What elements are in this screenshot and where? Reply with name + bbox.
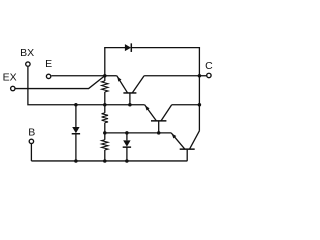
transistor Q2 middle NPN (emitter to rail L2, base rail L3) xyxy=(145,105,172,133)
node junction D3 cathode on bottom rail xyxy=(125,159,128,163)
terminal C (collector) xyxy=(205,60,213,78)
wire: ladder segment R2 bottom to L3 junction xyxy=(104,123,106,133)
wire: Q1 collector wire to C rail xyxy=(144,75,199,77)
wire: Q1 emitter stub on level L1 xyxy=(105,75,117,77)
diode D3 speed-up diode (Q2 base rail to B rail) xyxy=(123,133,131,161)
node junction D2 anode on Q1 base rail xyxy=(74,103,78,107)
node junction D2 cathode on bottom rail xyxy=(74,159,78,163)
transistor Q3 input NPN (emitter to rail L3, base bottom rail) xyxy=(171,131,199,161)
node junction D3 anode on Q2 base rail xyxy=(125,131,128,135)
wire: B terminal drop to bottom rail xyxy=(30,144,32,161)
node junction R2/R3 on Q2 base rail xyxy=(103,131,107,135)
resistor R2 (Q2 base-emitter) xyxy=(102,113,108,123)
wire: ladder segment R1 bottom to L2 junction xyxy=(104,92,106,105)
wire: E terminal to node E junction xyxy=(51,75,104,77)
svg-text:B: B xyxy=(28,127,35,139)
wire: bottom rail (B terminal to Q3 base) xyxy=(31,160,187,162)
wire: BX drop and base rail of Q1 (level L2) xyxy=(28,67,145,105)
svg-text:EX: EX xyxy=(3,72,17,84)
terminal E (emitter sense) xyxy=(45,58,52,78)
node junction R1/R2 on Q1 base rail xyxy=(103,103,107,107)
wire: C terminal stub xyxy=(199,75,206,77)
transistor Q1 output NPN (emitter to node E, base rail L2) xyxy=(117,76,144,105)
node junction R3 bottom on bottom rail xyxy=(103,159,107,163)
node node E junction (E, EX, FWD, R1, Q1 emitter) xyxy=(103,74,107,78)
wire: Q2 base rail (level L3) xyxy=(105,132,171,134)
node junction Q1 base on rail L2 xyxy=(128,103,132,107)
terminal EX (auxiliary emitter) xyxy=(3,72,17,91)
svg-text:BX: BX xyxy=(20,47,34,59)
wire: ladder segment L2 junction to R2 xyxy=(104,105,106,113)
wire: Q2 collector wire to C rail xyxy=(172,104,200,106)
svg-text:E: E xyxy=(45,58,52,70)
wire: ladder segment L3 junction to R3 xyxy=(104,133,106,140)
wire: ladder segment R1 top (node E junction to R1) xyxy=(104,76,106,81)
terminal B (base) xyxy=(28,127,35,144)
node junction C terminal / Q1 collector on C rail xyxy=(198,74,202,78)
resistor R3 (Q3 base-emitter) xyxy=(102,140,108,150)
wire: C rail vertical (top wire down to Q3 collector bend) xyxy=(198,48,200,131)
svg-text:C: C xyxy=(205,60,213,72)
resistor R1 (Q1 base-emitter) xyxy=(102,81,108,92)
wire: EX terminal run and rise to node E junction xyxy=(15,76,104,89)
wire: ladder segment R3 bottom to bottom rail xyxy=(104,150,106,161)
node junction Q2 base on rail L3 xyxy=(157,131,161,135)
wire: top free-wheel-diode wire (E ladder top to C rail) xyxy=(104,47,200,49)
node junction Q2 collector on C rail xyxy=(198,103,202,107)
diode D2 speed-up diode (Q1 base rail to B rail) xyxy=(72,105,80,161)
diode D1 free-wheel diode (anode E, cathode C) on top wire xyxy=(125,43,131,52)
wire: E-node ladder top segment (top wire to node E junction) xyxy=(104,48,106,76)
terminal BX (auxiliary base) xyxy=(20,47,34,66)
